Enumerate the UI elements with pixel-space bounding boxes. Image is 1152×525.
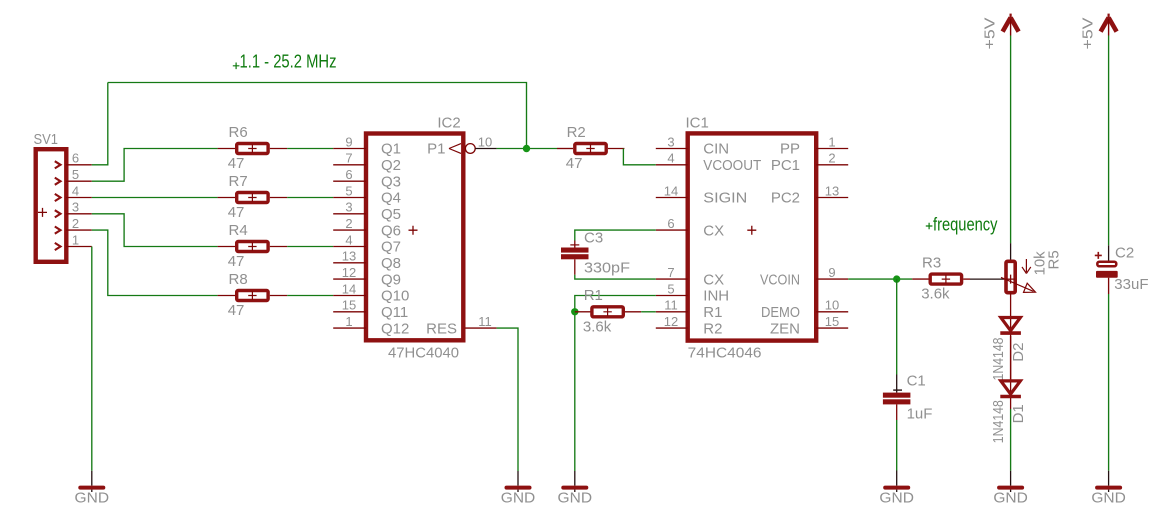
svg-text:+5V: +5V: [1079, 18, 1096, 50]
junction node VCOIN/C1: [893, 275, 900, 282]
wire R2 to IC1 pin4: [623, 149, 655, 165]
wire C1 drop: [896, 279, 898, 374]
svg-text:6: 6: [667, 216, 674, 231]
wire RES to GND: [497, 328, 518, 471]
wire IC1 pin9 to R3: [848, 278, 912, 280]
IC2 pin 15 (Q11) stub: [333, 311, 366, 313]
IC1 pin 6 (CX) stub: [656, 229, 688, 231]
IC2 pin 4 (Q7) stub: [333, 246, 366, 248]
IC1 pin 15 (ZEN) stub: [816, 327, 848, 329]
svg-text:Q6: Q6: [381, 222, 401, 239]
IC2 box: [366, 134, 463, 341]
IC1 pin 10 (DEMO) stub: [816, 311, 848, 313]
ground GND (IC2): [517, 471, 519, 486]
IC1 pin 1 (PP) stub: [816, 148, 848, 150]
wire +5V to R5: [1010, 36, 1012, 244]
svg-text:Q11: Q11: [381, 304, 408, 321]
svg-text:3: 3: [667, 134, 674, 149]
IC1 pin 12 (R2) stub: [656, 327, 688, 329]
svg-text:6: 6: [72, 151, 79, 166]
IC2 origin cross: [409, 226, 418, 235]
svg-text:VCOIN: VCOIN: [760, 271, 800, 288]
SV1 pin 1 stub: [66, 246, 92, 248]
svg-text:15: 15: [342, 298, 356, 313]
capacitor C1: [896, 375, 898, 393]
svg-text:330pF: 330pF: [584, 259, 630, 276]
SV1 pin 2 stub: [66, 229, 92, 231]
svg-text:1.1 - 25.2 MHz: 1.1 - 25.2 MHz: [240, 52, 337, 72]
svg-text:2: 2: [345, 216, 352, 231]
svg-text:9: 9: [828, 265, 835, 280]
svg-text:5: 5: [72, 167, 79, 182]
supply +5V (R5): [1003, 18, 1019, 32]
svg-text:P1: P1: [427, 141, 445, 158]
svg-text:D2: D2: [1010, 343, 1027, 362]
SV1 pin 3 stub: [66, 213, 92, 215]
SV1 pin 4 stub: [66, 197, 92, 199]
svg-text:3.6k: 3.6k: [583, 318, 612, 335]
svg-text:33uF: 33uF: [1114, 276, 1148, 293]
svg-text:7: 7: [345, 151, 352, 166]
svg-text:4: 4: [72, 183, 79, 198]
svg-text:47HC4040: 47HC4040: [388, 344, 459, 361]
svg-text:GND: GND: [879, 490, 914, 507]
ground GND (SV1): [91, 471, 93, 486]
svg-text:R2: R2: [567, 124, 586, 141]
svg-text:IC2: IC2: [437, 115, 460, 132]
svg-text:PC1: PC1: [771, 157, 800, 174]
svg-text:1: 1: [72, 232, 79, 247]
svg-text:R2: R2: [703, 320, 722, 337]
junction node R1/GND: [571, 308, 578, 315]
wire P1 to R2: [497, 148, 557, 150]
svg-text:GND: GND: [501, 490, 536, 507]
svg-text:10: 10: [825, 298, 839, 313]
IC1 pin 3 (CIN) stub: [656, 148, 688, 150]
svg-text:13: 13: [342, 249, 356, 264]
svg-text:INH: INH: [703, 288, 729, 305]
svg-text:1uF: 1uF: [907, 405, 933, 422]
svg-text:47: 47: [228, 204, 245, 221]
resistor R2 leads: [557, 148, 573, 150]
svg-text:Q7: Q7: [381, 239, 401, 256]
svg-text:CIN: CIN: [703, 141, 729, 158]
svg-text:SV1: SV1: [34, 131, 59, 148]
svg-text:47: 47: [228, 302, 245, 319]
SV1 pin 5 stub: [66, 180, 92, 182]
IC2 pin 6 (Q3) stub: [333, 180, 366, 182]
IC2 pin 1 (Q12) stub: [333, 327, 366, 329]
svg-text:Q5: Q5: [381, 206, 401, 223]
svg-text:1: 1: [345, 314, 352, 329]
resistor R6: [237, 144, 268, 154]
SV1 plus mark: [38, 208, 47, 217]
resistor R1: [592, 307, 623, 317]
svg-text:11: 11: [664, 298, 678, 313]
svg-text:1: 1: [828, 134, 835, 149]
svg-text:74HC4046: 74HC4046: [688, 344, 762, 361]
svg-text:GND: GND: [558, 490, 593, 507]
svg-text:10: 10: [478, 134, 492, 149]
wire +5V to C2: [1108, 36, 1110, 246]
svg-text:Q12: Q12: [381, 320, 409, 337]
svg-text:5: 5: [667, 281, 674, 296]
svg-text:DEMO: DEMO: [761, 304, 800, 321]
wire D1 to GND: [1010, 409, 1012, 471]
svg-text:GND: GND: [75, 490, 110, 507]
wire C2 to GND: [1108, 278, 1110, 294]
IC1 pin 5 (INH) stub: [656, 295, 688, 297]
wire C3 to IC1 pin7: [575, 275, 656, 279]
svg-text:GND: GND: [993, 490, 1028, 507]
svg-text:5: 5: [345, 183, 352, 198]
resistor R8 leads: [218, 295, 235, 297]
svg-text:2: 2: [828, 151, 835, 166]
diode D2: [1001, 318, 1021, 331]
wire D2 to D1: [1010, 336, 1012, 381]
IC1 pin 11 (R1) stub: [656, 311, 688, 313]
IC1 pin 7 (CX) stub: [656, 278, 688, 280]
wire pin2 to R8: [92, 230, 218, 295]
svg-text:3: 3: [345, 200, 352, 215]
potentiometer R5: [1010, 243, 1012, 259]
svg-text:1N4148: 1N4148: [990, 338, 1007, 381]
svg-text:PP: PP: [780, 141, 800, 158]
wire R3 to R5 wiper: [963, 278, 970, 280]
ground GND (D1): [1010, 471, 1012, 486]
svg-text:R6: R6: [229, 124, 248, 141]
svg-text:CX: CX: [703, 271, 724, 288]
svg-text:3.6k: 3.6k: [921, 286, 950, 303]
resistor R3: [930, 274, 961, 284]
svg-text:R8: R8: [229, 271, 248, 288]
svg-text:C3: C3: [584, 229, 603, 246]
svg-text:7: 7: [667, 265, 674, 280]
capacitor C2: [1108, 245, 1110, 260]
svg-text:Q9: Q9: [381, 271, 401, 288]
IC2 pin 7 (Q2) stub: [333, 164, 366, 166]
IC1 pin 2 (PC1) stub: [816, 164, 848, 166]
ground GND (C2): [1108, 471, 1110, 486]
ground GND (C1): [896, 471, 898, 486]
svg-text:6: 6: [345, 167, 352, 182]
wire pin6 to top rail: [92, 83, 108, 165]
capacitor C3: [574, 241, 576, 248]
svg-text:12: 12: [342, 265, 356, 280]
svg-text:4: 4: [667, 151, 674, 166]
svg-text:Q4: Q4: [381, 190, 401, 207]
svg-text:47: 47: [228, 155, 245, 172]
IC2 pin 3 (Q5) stub: [333, 213, 366, 215]
svg-text:47: 47: [228, 253, 245, 270]
IC1 pin 9 (VCOIN) stub: [816, 278, 848, 280]
wire IC1 pin6 to C3: [575, 230, 656, 240]
IC1 pin 4 (VCOOUT) stub: [656, 164, 688, 166]
connector SV1: [36, 149, 67, 262]
svg-text:PC2: PC2: [771, 190, 800, 207]
svg-text:R1: R1: [584, 287, 603, 304]
wire top rail 1.1-25.2MHz: [108, 83, 527, 149]
resistor R4 leads: [218, 246, 235, 248]
svg-text:C2: C2: [1115, 245, 1134, 262]
IC1 pin 13 (PC2) stub: [816, 197, 848, 199]
svg-text:1N4148: 1N4148: [990, 400, 1007, 443]
svg-text:Q8: Q8: [381, 255, 401, 272]
resistor R7 leads: [218, 197, 235, 199]
wire INH rail: [575, 296, 656, 472]
svg-text:4: 4: [345, 232, 352, 247]
svg-text:14: 14: [664, 183, 678, 198]
svg-text:CX: CX: [703, 222, 724, 239]
svg-text:R7: R7: [229, 173, 248, 190]
IC2 pin 2 (Q6) stub: [333, 229, 366, 231]
svg-text:R4: R4: [229, 222, 248, 239]
svg-text:14: 14: [342, 281, 356, 296]
wire pin3 to R4: [92, 214, 218, 247]
resistor R2: [575, 144, 606, 154]
svg-text:SIGIN: SIGIN: [703, 190, 747, 207]
svg-text:R5: R5: [1046, 250, 1063, 269]
svg-text:ZEN: ZEN: [770, 320, 800, 337]
resistor R7: [237, 193, 268, 203]
svg-text:Q10: Q10: [381, 288, 409, 305]
IC2 pin 13 (Q8) stub: [333, 262, 366, 264]
svg-text:+5V: +5V: [981, 18, 998, 50]
wire C1 to GND: [896, 420, 898, 471]
diode D1: [1001, 381, 1021, 394]
wire pin4 to R7: [92, 197, 218, 199]
resistor R6 leads: [218, 148, 235, 150]
net label frequency: [926, 223, 933, 230]
ground GND (R1 rail): [574, 471, 576, 486]
svg-text:R3: R3: [922, 255, 941, 272]
IC2 pin 9 (Q1) stub: [333, 148, 366, 150]
IC2 pin 14 (Q10) stub: [333, 295, 366, 297]
net label 1.1 - 25.2 MHz: [233, 63, 240, 70]
resistor R8: [237, 291, 268, 301]
svg-text:12: 12: [664, 314, 678, 329]
svg-text:D1: D1: [1010, 404, 1027, 423]
supply +5V (C2): [1101, 18, 1117, 32]
svg-text:VCOOUT: VCOOUT: [703, 157, 761, 174]
junction node P1/MHz: [523, 145, 530, 152]
svg-text:Q1: Q1: [381, 141, 401, 158]
svg-text:47: 47: [566, 155, 583, 172]
svg-text:C1: C1: [907, 373, 926, 390]
svg-text:3: 3: [72, 200, 79, 215]
svg-text:RES: RES: [426, 320, 457, 337]
wire pin1 to GND: [91, 247, 93, 471]
IC1 pin 14 (SIGIN) stub: [656, 197, 688, 199]
IC2 pin 12 (Q9) stub: [333, 278, 366, 280]
SV1 pin 6 stub: [66, 164, 92, 166]
svg-text:15: 15: [825, 314, 839, 329]
svg-text:Q3: Q3: [381, 173, 401, 190]
svg-text:IC1: IC1: [686, 115, 709, 132]
IC1 origin cross: [747, 226, 756, 235]
svg-text:Q2: Q2: [381, 157, 401, 174]
svg-text:GND: GND: [1091, 490, 1126, 507]
svg-text:frequency: frequency: [933, 215, 998, 235]
wire pin5 to R6: [92, 149, 218, 182]
resistor R1 leads: [575, 311, 591, 313]
IC2 pin 5 (Q4) stub: [333, 197, 366, 199]
svg-text:2: 2: [72, 216, 79, 231]
IC1 box: [688, 133, 817, 340]
svg-text:13: 13: [825, 183, 839, 198]
svg-text:9: 9: [345, 134, 352, 149]
svg-text:R1: R1: [703, 304, 722, 321]
resistor R4: [237, 242, 268, 252]
svg-text:11: 11: [478, 314, 492, 329]
resistor R3 leads: [912, 278, 928, 280]
